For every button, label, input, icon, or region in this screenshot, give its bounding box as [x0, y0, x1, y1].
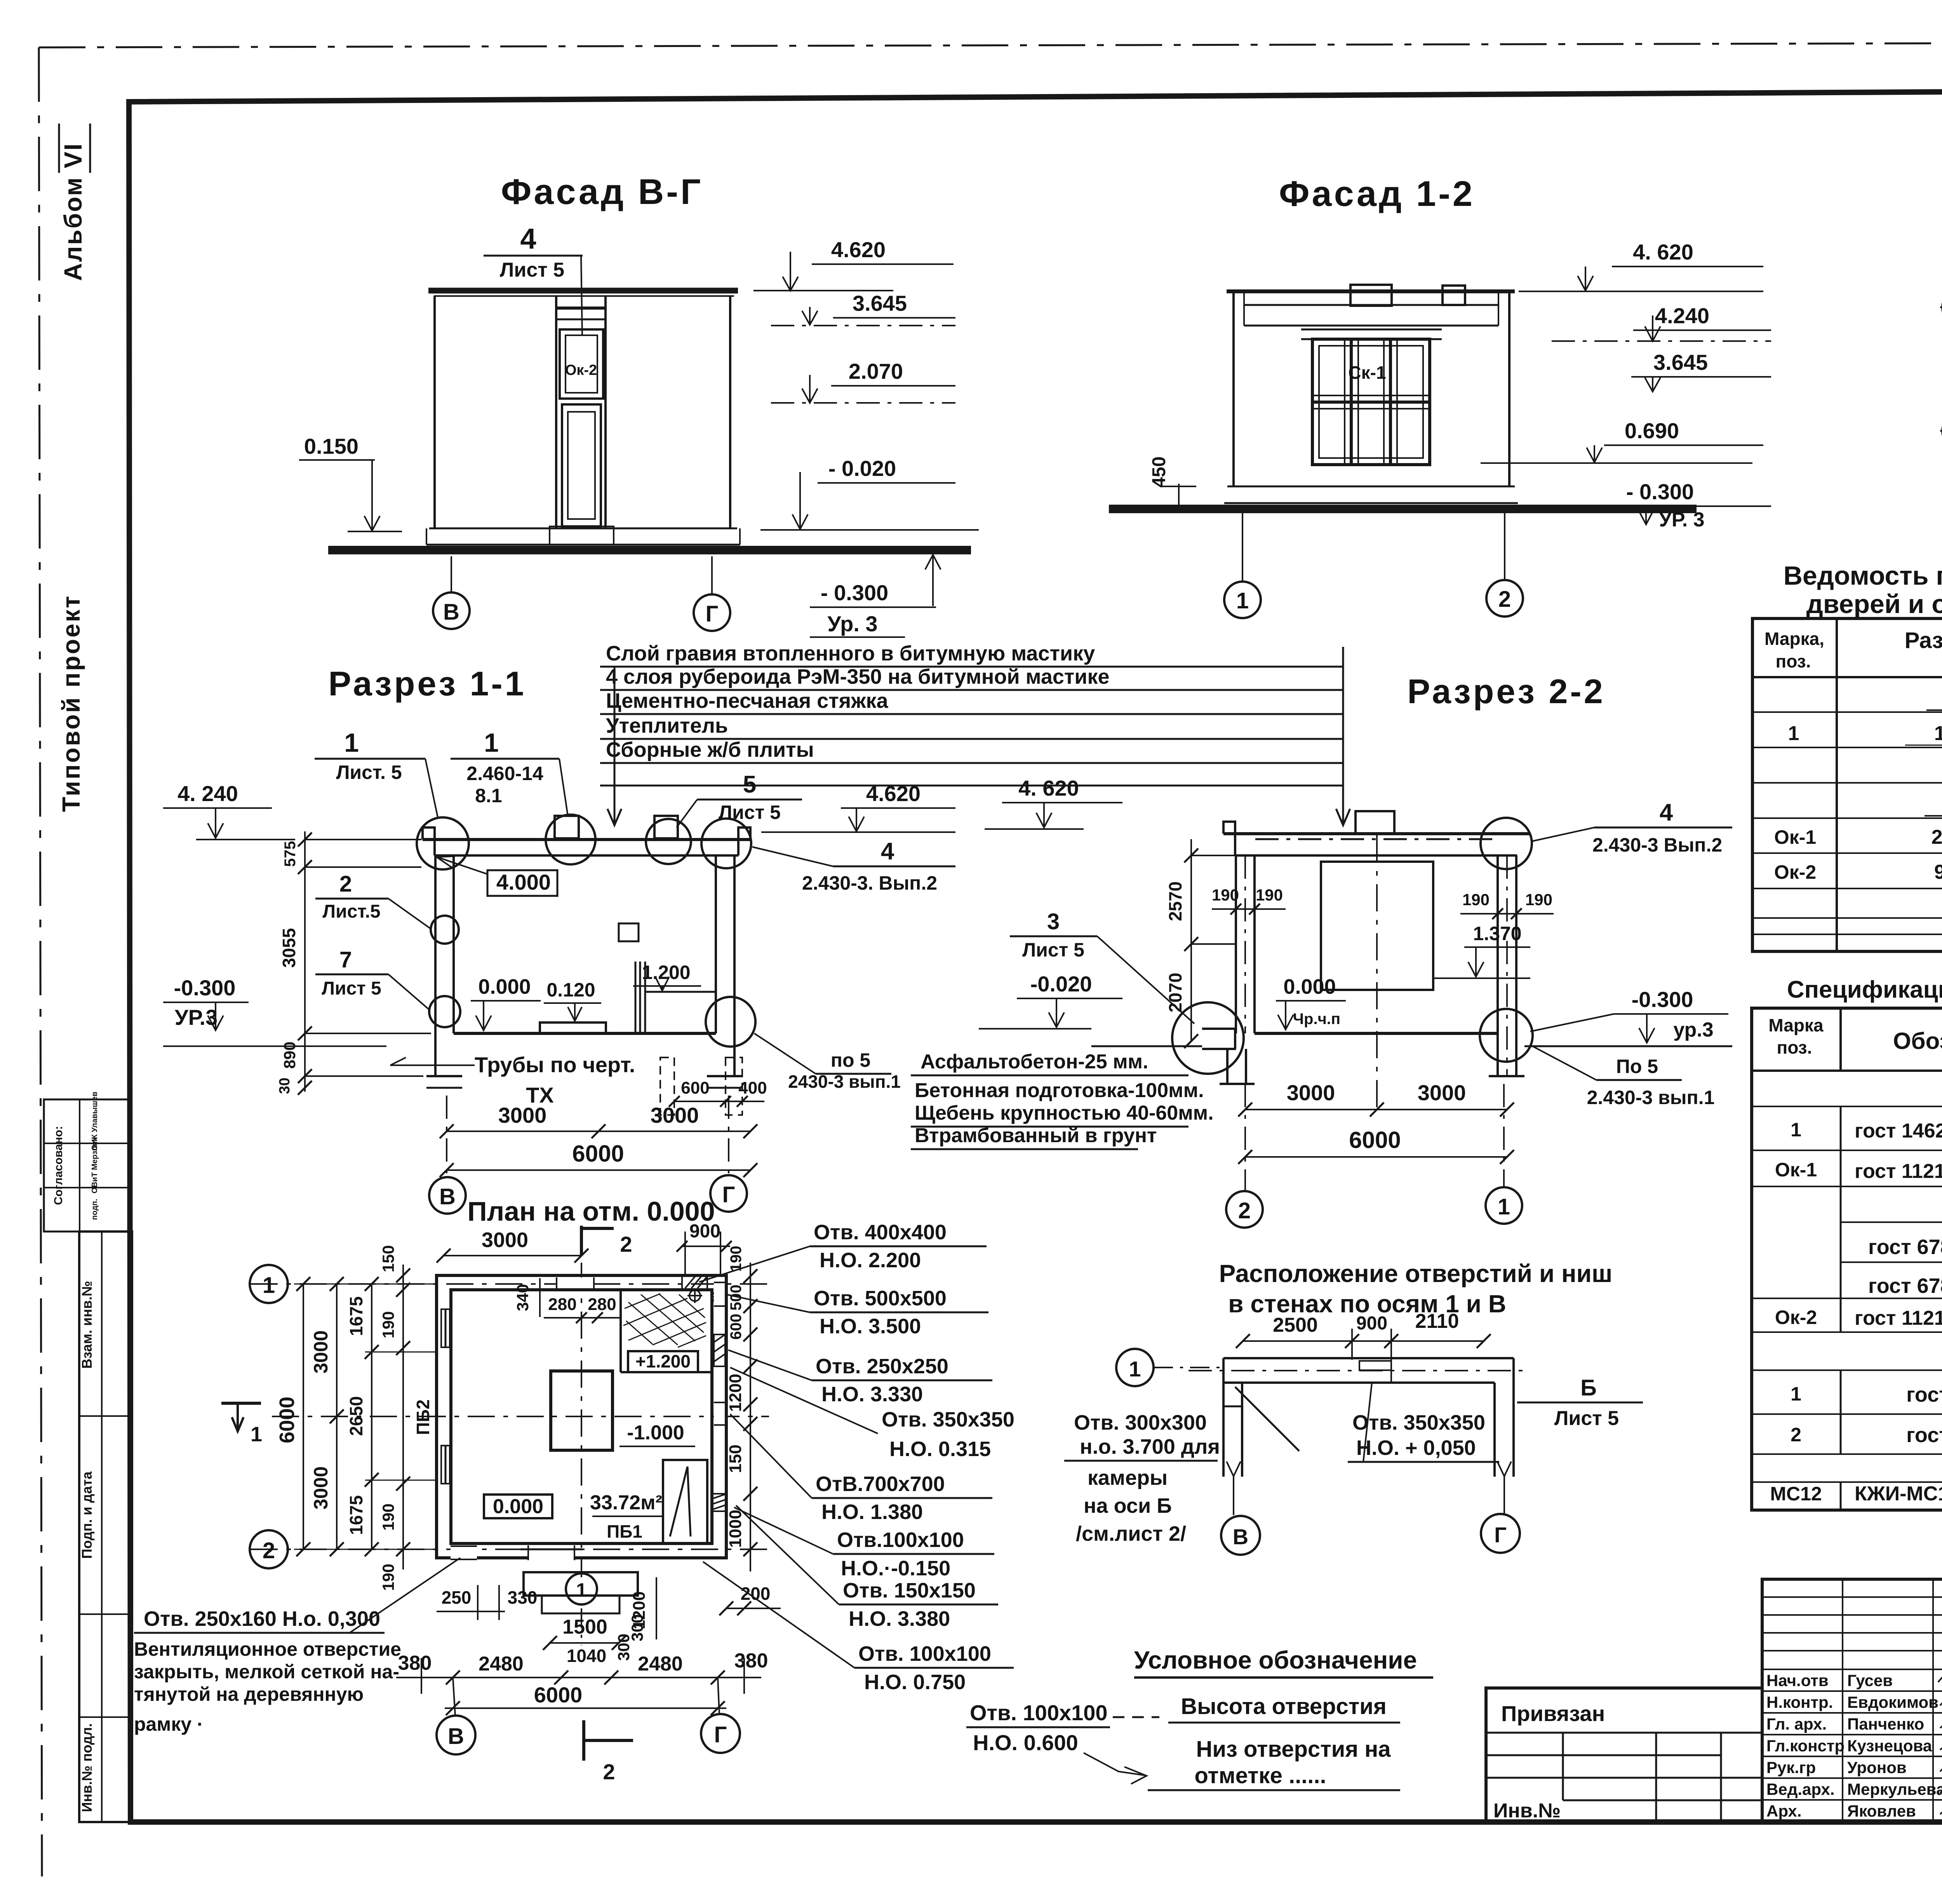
svg-text:0.000: 0.000 [1283, 975, 1336, 998]
approval stamp table [44, 1092, 128, 1232]
section 1-1 callout 5 list 5 [677, 771, 802, 827]
signature row 5 [1766, 1758, 1942, 1777]
openings wall left leg [1223, 1358, 1242, 1477]
section 1-1 bottom dim 6000 [440, 1141, 757, 1177]
svg-text:Гл.констр: Гл.констр [1766, 1737, 1845, 1755]
svg-text:2.430-3. Вып.2: 2.430-3. Вып.2 [802, 872, 937, 894]
svg-text:Кузнецова: Кузнецова [1847, 1737, 1932, 1755]
svg-text:Нач.отв: Нач.отв [1766, 1671, 1829, 1690]
specification row 5 plita 24 [1868, 1274, 1942, 1298]
legend height note [1113, 1694, 1400, 1723]
svg-text:900: 900 [689, 1221, 720, 1242]
svg-text:150: 150 [379, 1245, 397, 1272]
section 2-2 axis leader 1 [1503, 1084, 1505, 1187]
section 2-2 bottom dim 6000 [1238, 1127, 1514, 1164]
svg-text:Н.О. 0.600: Н.О. 0.600 [973, 1730, 1078, 1755]
legend title [1134, 1646, 1433, 1678]
openings note 350x350 [1348, 1383, 1499, 1462]
svg-text:МС12: МС12 [1770, 1483, 1822, 1505]
svg-text:Типовой проект: Типовой проект [57, 594, 85, 812]
facade V-G plinth [426, 526, 740, 545]
svg-text:ОтВ.700х700: ОтВ.700х700 [816, 1472, 945, 1496]
svg-text:В: В [443, 599, 459, 625]
floor plan left section mark 1 [221, 1403, 262, 1446]
openings note 300x300 [1064, 1411, 1220, 1545]
svg-text:гост 6785 - 80: гост 6785 - 80 [1868, 1235, 1942, 1259]
svg-text:190: 190 [379, 1311, 397, 1338]
svg-text:Отв. 100х100: Отв. 100х100 [970, 1700, 1108, 1725]
ground note line 1 [911, 1050, 1189, 1075]
svg-text:тянутой на деревянную: тянутой на деревянную [134, 1683, 364, 1705]
svg-text:Ок-1: Ок-1 [1775, 1159, 1817, 1181]
section 1-1 roof slab [423, 827, 750, 855]
svg-text:1: 1 [1236, 588, 1249, 613]
svg-text:- 0.300: - 0.300 [821, 580, 888, 605]
svg-text:Марка: Марка [1768, 1015, 1824, 1035]
svg-text:Бетонная подготовка-100мм.: Бетонная подготовка-100мм. [915, 1079, 1204, 1102]
section 2-2 left column [1236, 855, 1255, 1033]
facade 1-2 roof vent box 2 [1443, 286, 1465, 305]
svg-text:В: В [439, 1184, 456, 1209]
svg-text:1: 1 [251, 1423, 262, 1446]
axis circle V [429, 1177, 466, 1214]
roofing layers note line 4 [600, 714, 1344, 739]
svg-text:2: 2 [1791, 1424, 1801, 1446]
floor plan axis col center [581, 1263, 582, 1577]
section 1-1 detail circle G [706, 997, 755, 1047]
section 1-1 callout 1 2460-14 [451, 728, 568, 816]
svg-text:4.620: 4.620 [831, 237, 886, 262]
floor plan right dim chain [726, 1246, 757, 1571]
svg-text:0.000: 0.000 [493, 1495, 543, 1518]
facade 1-2 left wall [1232, 291, 1235, 486]
floor plan left dim chain 3000 3000 [310, 1277, 344, 1556]
svg-text:250: 250 [442, 1587, 472, 1608]
svg-text:Г: Г [722, 1182, 735, 1207]
floor plan area label [590, 1491, 662, 1542]
specification row 7 [1791, 1383, 1942, 1406]
section 1-1 dim 600 400 [669, 1078, 767, 1107]
section 1-1 detail circle F [429, 996, 460, 1027]
floor plan vent cross symbol 1 [687, 1288, 702, 1303]
svg-text:3000: 3000 [1418, 1080, 1466, 1105]
facade 1-2 right wall [1508, 291, 1510, 486]
signature row 4 [1766, 1737, 1942, 1755]
svg-text:Г: Г [1494, 1523, 1507, 1547]
svg-text:3000: 3000 [651, 1103, 699, 1127]
svg-text:Инв.№: Инв.№ [1493, 1799, 1561, 1822]
svg-text:/см.лист 2/: /см.лист 2/ [1076, 1522, 1186, 1545]
svg-text:закрыть, мелкой сеткой на-: закрыть, мелкой сеткой на- [134, 1661, 399, 1683]
vedomost proemov header texts [1765, 628, 1942, 677]
axis circle G bottom [701, 1678, 740, 1753]
section 2-2 roof slab [1223, 822, 1530, 855]
svg-text:- 0.300: - 0.300 [1626, 479, 1694, 504]
svg-text:Ок-2: Ок-2 [1774, 861, 1816, 883]
svg-text:ОВиТ Мерзляк: ОВиТ Мерзляк [90, 1137, 99, 1193]
svg-text:1675: 1675 [346, 1495, 366, 1535]
svg-text:3.645: 3.645 [853, 291, 907, 315]
section 1-1 axis leader V [446, 1096, 447, 1176]
svg-text:2.460-14: 2.460-14 [466, 763, 543, 784]
axis circle G [694, 594, 730, 631]
svg-text:6000: 6000 [534, 1683, 583, 1707]
floor plan right wall opening 700 [714, 1402, 725, 1425]
facade 1-2 plinth [1224, 486, 1518, 503]
facade 1-2 mark 4.240 [1552, 303, 1771, 341]
svg-text:Лист. 5: Лист. 5 [336, 761, 402, 783]
svg-text:4. 620: 4. 620 [1633, 240, 1693, 264]
svg-text:2570: 2570 [1165, 881, 1185, 921]
axis circle 2 [1226, 1191, 1263, 1228]
section 2-2 mark -0.020 [979, 972, 1122, 1029]
section 2-2 detail circle top right [1481, 818, 1532, 869]
svg-text:Привязан: Привязан [1501, 1701, 1605, 1726]
facade 1-2 parapet fascia [1244, 291, 1498, 326]
svg-text:1000: 1000 [726, 1510, 745, 1548]
section 2-2 floor line [1255, 1032, 1498, 1035]
section 1-1 callout 7 list 5 [315, 947, 429, 1009]
floor plan top section mark 2 [581, 1226, 632, 1256]
section 1-1 floor step [540, 1023, 606, 1033]
floor plan bottom section mark 2 [584, 1720, 633, 1784]
floor plan right wall hatch opening 600 [714, 1334, 725, 1366]
svg-text:4: 4 [1660, 799, 1673, 826]
svg-text:по 5: по 5 [831, 1049, 870, 1071]
svg-text:Расположение отверстий и ниш: Расположение отверстий и ниш [1219, 1259, 1613, 1287]
signature row 3 [1766, 1715, 1942, 1733]
svg-text:-0.300: -0.300 [174, 976, 236, 1000]
svg-text:гост 14624- 84: гост 14624- 84 [1855, 1120, 1942, 1142]
section 2-2 axis leader 2 [1244, 1084, 1246, 1191]
svg-text:4. 240: 4. 240 [177, 781, 238, 806]
svg-text:0.150: 0.150 [304, 434, 358, 458]
axis circle 1 [1486, 1187, 1522, 1224]
svg-text:Б: Б [1580, 1375, 1597, 1401]
svg-text:Н.О. 3.330: Н.О. 3.330 [821, 1383, 923, 1406]
svg-text:3000: 3000 [482, 1228, 528, 1252]
section 2-2 detail circle bottom right [1480, 1009, 1533, 1062]
svg-text:Евдокимов: Евдокимов [1847, 1693, 1939, 1711]
svg-text:Размер проема: Размер проема [1905, 628, 1942, 653]
floor plan right wall hatch small [712, 1494, 727, 1511]
svg-text:2.070: 2.070 [849, 359, 903, 383]
section 1-1 detail circle B [546, 815, 595, 864]
section 1-1 callout 4 2430-3 [752, 838, 955, 894]
axis circle V bottom [437, 1678, 475, 1754]
floor plan bottom dim 200 [719, 1583, 781, 1615]
facade 1-2 ground line [1109, 505, 1697, 513]
section 1-1 callout 2 list 5 [315, 871, 430, 928]
section 1-1 mark 4.240 [163, 781, 295, 840]
svg-text:5: 5 [743, 771, 756, 798]
section 2-2 callout 3 list 5 [1010, 909, 1194, 1024]
svg-text:Лист.5: Лист.5 [322, 901, 380, 922]
facade 1-2 window OK-1 [1312, 339, 1430, 465]
section 1-1 mark -0.300 [163, 976, 386, 1046]
svg-text:Подп. и дата: Подп. и дата [79, 1471, 95, 1559]
svg-text:Высота отверстия: Высота отверстия [1181, 1694, 1387, 1719]
facade 1-2 mark 4.620 [1519, 240, 1763, 291]
specification row 9 [1770, 1482, 1942, 1506]
svg-text:Марка,: Марка, [1765, 629, 1824, 649]
svg-text:Низ отверстия на: Низ отверстия на [1196, 1737, 1391, 1762]
svg-text:Отв. 500х500: Отв. 500х500 [814, 1287, 947, 1310]
svg-text:1: 1 [484, 728, 499, 758]
axis circle 1 [1224, 582, 1261, 618]
svg-text:+1.200: +1.200 [635, 1351, 691, 1371]
svg-text:Отв. 350х350: Отв. 350х350 [1352, 1411, 1485, 1434]
svg-text:30: 30 [277, 1078, 293, 1094]
svg-text:450: 450 [1149, 456, 1169, 488]
svg-text:6000: 6000 [275, 1397, 299, 1443]
svg-text:200: 200 [741, 1583, 771, 1604]
section 1-1 mark 0.120 [544, 979, 601, 1021]
svg-text:190: 190 [1212, 886, 1239, 904]
svg-text:1: 1 [1788, 722, 1799, 745]
svg-text:гост 11214 - 78: гост 11214 - 78 [1855, 1160, 1942, 1183]
svg-text:Ур. 3: Ур. 3 [827, 611, 877, 636]
svg-text:Н.О.·-0.150: Н.О.·-0.150 [841, 1557, 950, 1580]
facade V-G window OK-2 [560, 329, 603, 399]
VI overline [58, 124, 60, 173]
svg-text:190: 190 [379, 1503, 397, 1531]
inventory stamp strip [79, 1232, 132, 1822]
section 1-1 pipe dashed 1 [660, 1057, 674, 1115]
specification row 8 [1791, 1423, 1942, 1447]
specification row 2 ok1 [1775, 1155, 1942, 1188]
svg-text:Яковлев: Яковлев [1847, 1802, 1916, 1820]
vedomost proemov row door [1788, 722, 1942, 745]
section 1-1 mark 0.000 [471, 975, 541, 1030]
floor plan +1.200 box [621, 1290, 712, 1372]
svg-text:Г: Г [714, 1722, 727, 1747]
svg-text:340: 340 [513, 1284, 532, 1311]
svg-text:гост 948 - 76: гост 948 - 76 [1906, 1423, 1942, 1447]
section 2-2 right column [1489, 855, 1524, 1076]
openings callout B list 5 [1517, 1375, 1643, 1430]
roofing layers note line 1 [600, 642, 1344, 667]
svg-text:-0.300: -0.300 [1632, 987, 1693, 1012]
svg-text:1: 1 [344, 728, 359, 758]
svg-text:КЖИ-МС10: КЖИ-МС10 [1855, 1482, 1942, 1505]
svg-text:УР.3: УР.3 [175, 1005, 218, 1030]
floor plan callout 350x350 [730, 1367, 1015, 1461]
section 1-1 detail circle E [431, 916, 459, 944]
svg-text:0.000: 0.000 [478, 975, 531, 998]
section 2-2 mark 0.000 [1276, 975, 1346, 1030]
svg-text:План на отм. 0.000: План на отм. 0.000 [467, 1196, 715, 1226]
facade V-G ground line [328, 546, 971, 554]
roof plan axis line 1 [1940, 307, 1942, 308]
facade 1-2 mark 3.645 [1631, 350, 1771, 392]
svg-text:-1.000: -1.000 [627, 1421, 684, 1444]
svg-text:Ск-1: Ск-1 [1348, 362, 1386, 383]
svg-text:2430-3 вып.1: 2430-3 вып.1 [788, 1071, 901, 1092]
svg-text:Гл. арх.: Гл. арх. [1766, 1715, 1827, 1733]
svg-text:190: 190 [1525, 890, 1552, 909]
section 2-2 mark 1.370 [1433, 923, 1530, 978]
svg-text:Лист 5: Лист 5 [500, 259, 564, 281]
svg-text:910 х 1510: 910 х 1510 [1934, 861, 1942, 883]
svg-text:2: 2 [1498, 587, 1511, 612]
svg-text:4: 4 [520, 223, 536, 255]
svg-text:1: 1 [1498, 1194, 1510, 1219]
section 1-1 mark 1.200 [633, 962, 701, 991]
svg-text:Вед.арх.: Вед.арх. [1766, 1780, 1835, 1798]
facade 1-2 axis leader 1 [1242, 511, 1243, 582]
floor plan dim 1500 [543, 1616, 626, 1650]
svg-text:Н.О. 0.750: Н.О. 0.750 [864, 1671, 966, 1694]
floor plan callout 500x500 [726, 1287, 988, 1338]
floor plan outer walls [437, 1275, 726, 1558]
svg-text:400: 400 [738, 1078, 767, 1097]
svg-text:В: В [448, 1724, 464, 1749]
floor plan bottom wall door [520, 1545, 583, 1560]
specification row 1 door [1791, 1114, 1942, 1148]
section 1-1 roof hatch curb 1 [555, 816, 579, 838]
svg-text:По 5: По 5 [1616, 1056, 1658, 1077]
floor plan left dim chain 150 190 [379, 1245, 410, 1591]
svg-text:Отв. 150х150: Отв. 150х150 [843, 1579, 976, 1602]
vedomost proemov row ok2 [1774, 861, 1942, 883]
section 1-1 boxed mark 4.000 [437, 856, 557, 896]
svg-text:3000: 3000 [498, 1103, 547, 1127]
signature row 6 [1766, 1780, 1942, 1798]
floor plan dim 280 280 [544, 1295, 621, 1323]
floor plan pillar [551, 1371, 613, 1450]
section 2-2 left footing step [1202, 1029, 1255, 1084]
svg-text:4.620: 4.620 [866, 781, 921, 806]
svg-text:3: 3 [1047, 909, 1060, 934]
floor plan axis mid [272, 1416, 769, 1417]
title block signature table [1762, 1579, 1942, 1821]
facade 1-2 window OK-1 sill band [1301, 329, 1442, 339]
svg-text:на оси Б: на оси Б [1084, 1494, 1172, 1517]
section 2-2 callout po 5 right [1530, 1045, 1714, 1108]
section 1-1 detail circle D [701, 819, 751, 868]
facade V-G mark 0.150 [299, 434, 402, 531]
openings wall top band [1189, 1358, 1523, 1383]
svg-text:Втрамбованный в грунт: Втрамбованный в грунт [915, 1124, 1157, 1147]
openings diagonal [1235, 1387, 1299, 1451]
svg-text:33.72м²: 33.72м² [590, 1491, 662, 1514]
VI underline [89, 124, 91, 173]
svg-text:Лист 5: Лист 5 [719, 801, 781, 823]
svg-text:2110: 2110 [1415, 1310, 1459, 1333]
svg-text:2650: 2650 [346, 1396, 366, 1436]
svg-text:1: 1 [1791, 1383, 1801, 1405]
svg-text:Ок-2: Ок-2 [1775, 1306, 1817, 1328]
section 2-2 ground left [1091, 1045, 1202, 1047]
facade V-G mark 3.645 [771, 291, 955, 326]
svg-text:380: 380 [734, 1650, 768, 1672]
svg-text:Асфальтобетон-25 мм.: Асфальтобетон-25 мм. [921, 1050, 1148, 1073]
svg-text:4: 4 [881, 838, 894, 865]
legend bottom note [1148, 1737, 1400, 1790]
vedomost proemov heading [1784, 561, 1942, 619]
ground note line 3 [911, 1102, 1214, 1127]
facade V-G axis leader G [711, 556, 713, 594]
axis circle 1 [250, 1265, 288, 1303]
svg-text:600: 600 [727, 1314, 745, 1340]
section 1-1 pipe dashed 2 [726, 1057, 742, 1115]
openings dim 2500 900 2110 [1236, 1310, 1491, 1383]
floor plan center axis extension [581, 1608, 582, 1645]
svg-text:Взам. инв.№: Взам. инв.№ [79, 1281, 95, 1369]
section 2-2 detail circle bottom left [1172, 1002, 1244, 1074]
svg-text:1: 1 [1791, 1119, 1801, 1141]
svg-text:3055: 3055 [279, 928, 299, 968]
facade 1-2 roof edge [1227, 289, 1515, 293]
roofing layers note line 5 [600, 738, 1344, 786]
svg-text:2500: 2500 [1273, 1314, 1318, 1336]
specification row 4 plita 16 [1868, 1235, 1942, 1259]
floor plan right wall opening 500 [714, 1282, 725, 1306]
svg-text:Слой гравия втопленного в биту: Слой гравия втопленного в битумную масти… [606, 642, 1095, 665]
svg-text:Согласовано:: Согласовано: [52, 1126, 65, 1205]
section 1-1 callout 1 list 5 [315, 728, 438, 819]
floor plan callout 700x700 [730, 1414, 992, 1524]
floor plan vent cross symbol 2 [710, 1289, 725, 1304]
facade 1-2 dim 450 [1149, 456, 1196, 510]
svg-text:-0.020: -0.020 [1030, 972, 1092, 996]
facade 1-2 mark 0.690 [1481, 418, 1763, 463]
floor plan dim row 380 2480 1040 2480 380 [396, 1646, 768, 1694]
svg-text:1200: 1200 [726, 1374, 745, 1412]
roofing layers note line 3 [600, 689, 1344, 714]
svg-text:Лист 5: Лист 5 [322, 978, 381, 999]
svg-text:Отв. 100х100: Отв. 100х100 [858, 1642, 991, 1665]
svg-text:Отв. 300х300: Отв. 300х300 [1074, 1411, 1207, 1434]
section 1-1 left column [426, 855, 462, 1088]
section 1-1 callout po 5 [754, 1033, 901, 1092]
svg-text:В: В [1233, 1524, 1248, 1549]
specification row lines [1752, 1106, 1942, 1482]
svg-text:Н.О. 0.315: Н.О. 0.315 [889, 1437, 991, 1461]
svg-text:2: 2 [1238, 1198, 1251, 1223]
svg-text:300: 300 [628, 1614, 646, 1641]
section 1-1 detail circle C [646, 819, 691, 864]
svg-text:ПБ2: ПБ2 [413, 1399, 433, 1435]
section 2-2 center axis [1376, 835, 1378, 1111]
facade V-G mark 4.620 [753, 237, 954, 291]
svg-text:3000: 3000 [1287, 1080, 1335, 1105]
svg-text:4.240: 4.240 [1655, 303, 1709, 328]
svg-text:190: 190 [1462, 890, 1490, 909]
openings axis circle G [1481, 1462, 1520, 1553]
specification row 6 ok2 [1775, 1303, 1942, 1333]
floor plan top dim 900 [677, 1221, 732, 1276]
svg-text:1040х2070: 1040х2070 [1934, 722, 1942, 745]
svg-text:2.430-3 вып.1: 2.430-3 вып.1 [1587, 1087, 1715, 1108]
svg-text:4. 620: 4. 620 [1018, 776, 1079, 800]
facade V-G mark 2.070 [771, 359, 955, 403]
svg-text:Ок-2: Ок-2 [565, 362, 597, 378]
floor plan bottom wall vent opening [451, 1546, 477, 1559]
svg-text:Утеплитель: Утеплитель [606, 714, 728, 737]
svg-text:Уронов: Уронов [1847, 1758, 1907, 1777]
svg-text:3000: 3000 [310, 1466, 332, 1509]
svg-text:Лист 5: Лист 5 [1022, 939, 1084, 961]
section 2-2 roof curb [1356, 811, 1394, 834]
svg-text:Н.О. 3.380: Н.О. 3.380 [849, 1607, 950, 1631]
svg-text:Н.О. 1.380: Н.О. 1.380 [821, 1500, 923, 1524]
svg-text:поз.: поз. [1776, 651, 1811, 671]
section 2-2 ground right [1524, 1045, 1732, 1047]
title block privyazan box [1486, 1688, 1762, 1822]
svg-text:280: 280 [588, 1295, 616, 1314]
